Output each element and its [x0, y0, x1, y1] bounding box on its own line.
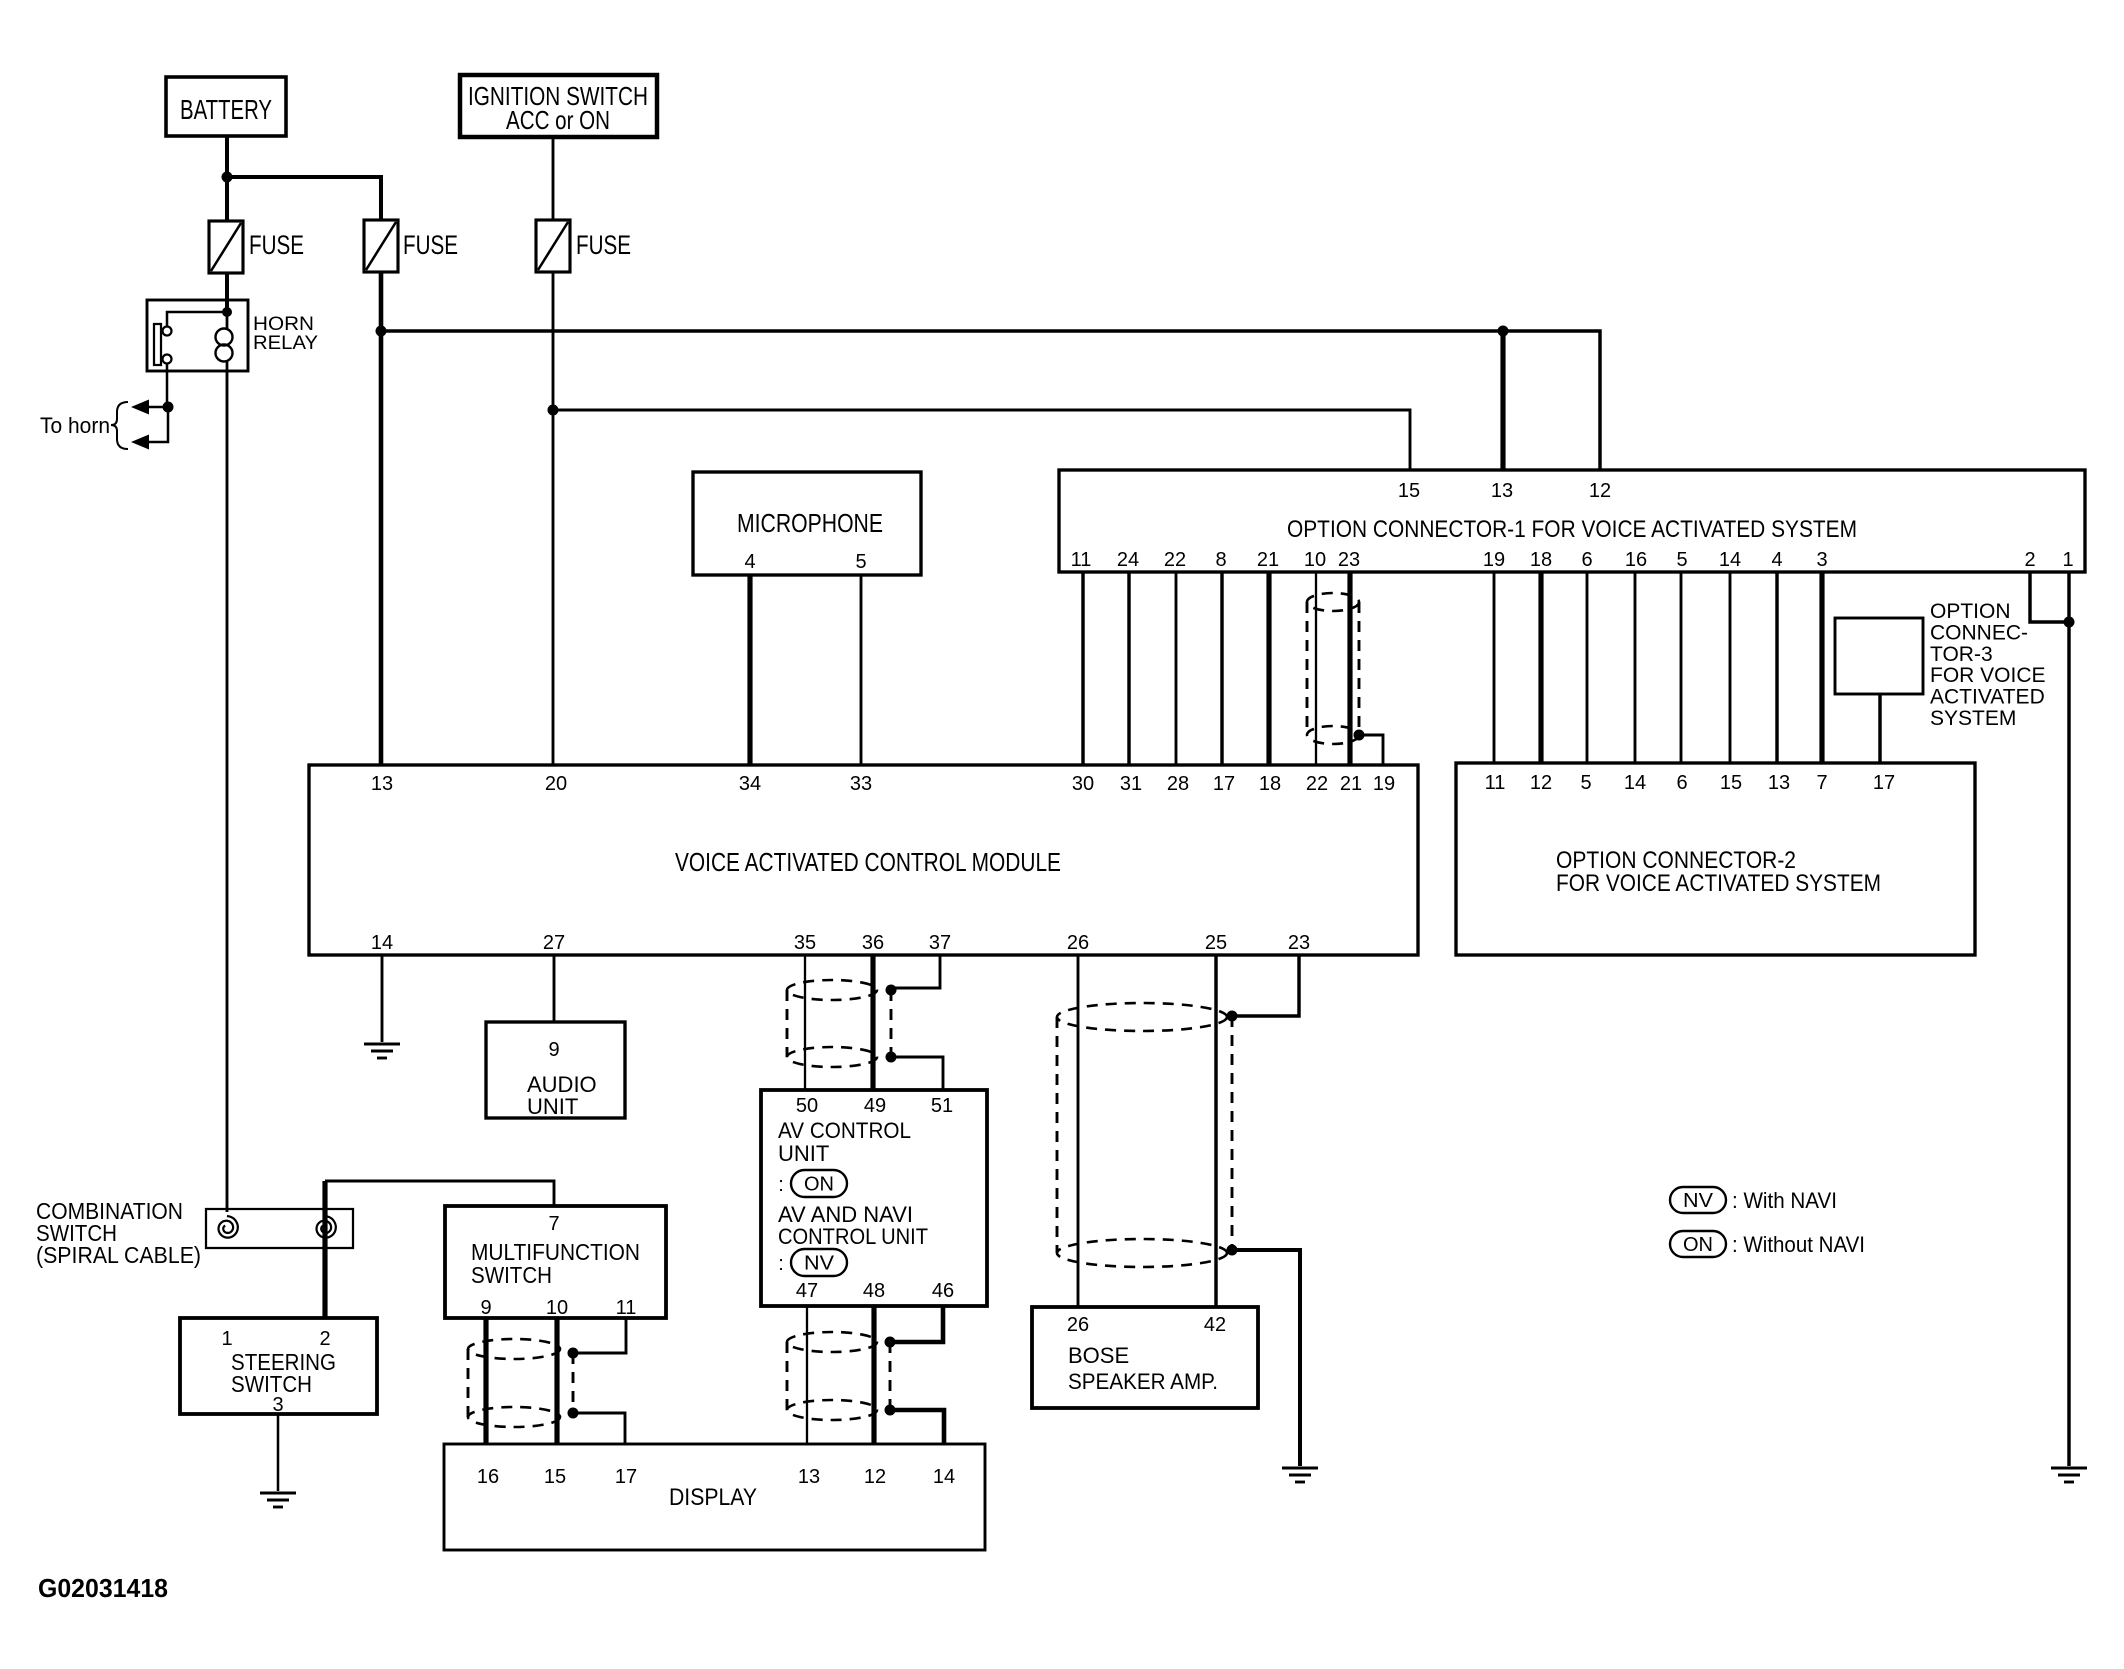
svg-text:15: 15 [1398, 480, 1420, 502]
multifunction switch box [445, 1206, 666, 1318]
svg-text:13: 13 [1768, 772, 1790, 794]
wire MF-9 to display-16 [483, 1318, 488, 1444]
wire VACM-14 to ground [381, 955, 384, 1042]
svg-text:MICROPHONE: MICROPHONE [737, 508, 883, 538]
svg-text:DISPLAY: DISPLAY [669, 1484, 757, 1511]
svg-text:2: 2 [2024, 549, 2035, 571]
svg-text:42: 42 [1204, 1314, 1226, 1336]
svg-text:26: 26 [1067, 1314, 1089, 1336]
wire MF-11 jog [573, 1318, 626, 1353]
wire L1 drop to OC1 pin 13 [1500, 331, 1505, 470]
wire VACM-26 to bose-26 [1077, 955, 1080, 1307]
svg-text:4: 4 [1771, 549, 1782, 571]
svg-text:ON: ON [804, 1174, 834, 1196]
svg-text::: : [778, 1253, 784, 1275]
svg-text:6: 6 [1581, 549, 1592, 571]
svg-text:26: 26 [1067, 932, 1089, 954]
shield S3 [787, 1332, 877, 1352]
relay internal wire to contact [167, 312, 227, 326]
svg-text:OPTION: OPTION [1930, 600, 2011, 623]
wire AV-47 to display-13 [806, 1306, 808, 1444]
ground VACM-14 [364, 1043, 400, 1046]
svg-text:FUSE: FUSE [249, 230, 304, 260]
ground right rail [2051, 1467, 2087, 1470]
svg-text:13: 13 [1491, 480, 1513, 502]
svg-text:24: 24 [1117, 549, 1139, 571]
svg-text:ON: ON [1683, 1234, 1713, 1256]
ignition switch SW1 [460, 75, 657, 137]
svg-text:12: 12 [1589, 480, 1611, 502]
wire rail fuse3 to VACM pin 20 [552, 272, 555, 765]
svg-text:11: 11 [1071, 549, 1092, 571]
wire AV-48 to display-12 [871, 1306, 876, 1444]
svg-text:16: 16 [477, 1466, 499, 1488]
svg-text:28: 28 [1167, 773, 1189, 795]
svg-text:15: 15 [1720, 772, 1742, 794]
svg-text:23: 23 [1338, 549, 1360, 571]
svg-text:16: 16 [1625, 549, 1647, 571]
svg-text:25: 25 [1205, 932, 1227, 954]
combination switch spiral cable box [206, 1209, 353, 1248]
wire ignition to fuse3 [552, 137, 555, 220]
svg-text:9: 9 [548, 1039, 559, 1061]
svg-text:5: 5 [1676, 549, 1687, 571]
svg-text:36: 36 [862, 932, 884, 954]
legend ON without navi [1670, 1231, 1726, 1257]
wire OC1-16 to OC2-14 [1634, 572, 1637, 763]
svg-text:30: 30 [1072, 773, 1094, 795]
svg-text:HORN: HORN [253, 314, 314, 335]
svg-text:14: 14 [371, 932, 393, 954]
node S3 drain top [885, 1337, 896, 1348]
svg-text:21: 21 [1340, 773, 1362, 795]
svg-text:11: 11 [1485, 772, 1506, 794]
battery B1 [166, 77, 286, 136]
wire relay switch to horn node [166, 363, 169, 407]
svg-text:21: 21 [1257, 549, 1279, 571]
svg-text:CONTROL UNIT: CONTROL UNIT [778, 1224, 928, 1249]
svg-text:13: 13 [371, 773, 393, 795]
node S3 drain bottom [885, 1405, 896, 1416]
svg-text:50: 50 [796, 1095, 818, 1117]
wire to horn upper [145, 406, 168, 409]
node S2 drain top [886, 985, 897, 996]
wire OC1-18 to OC2-12 [1538, 572, 1543, 763]
svg-text:3: 3 [272, 1394, 283, 1416]
wire junction to fuse1 [225, 177, 229, 221]
bose speaker amp box [1032, 1307, 1258, 1408]
wire OC1-1 rail to ground [2067, 572, 2070, 1466]
svg-text:ACTIVATED: ACTIVATED [1930, 686, 2045, 709]
wire VACM-37 jog [891, 955, 940, 988]
svg-text:51: 51 [931, 1095, 953, 1117]
svg-text:35: 35 [794, 932, 816, 954]
node fuse2 rail branch [376, 326, 387, 337]
wire battery to junction [225, 136, 229, 177]
svg-text:3: 3 [1816, 549, 1827, 571]
svg-text:17: 17 [615, 1466, 637, 1488]
svg-text:NV: NV [1683, 1190, 1714, 1212]
wire OC1-14 to OC2-15 [1729, 572, 1732, 763]
svg-text:6: 6 [1676, 772, 1687, 794]
svg-text:17: 17 [1213, 773, 1235, 795]
svg-text:(SPIRAL CABLE): (SPIRAL CABLE) [36, 1242, 201, 1268]
svg-text:7: 7 [1816, 772, 1827, 794]
ground bose shield [1282, 1467, 1318, 1470]
node S5 drain top [1227, 1011, 1238, 1022]
wire OC1-4 to OC2-13 [1775, 572, 1778, 763]
svg-text:FUSE: FUSE [403, 230, 458, 260]
svg-text:46: 46 [932, 1280, 954, 1302]
svg-text:19: 19 [1483, 549, 1505, 571]
svg-text:14: 14 [1624, 772, 1646, 794]
wire S5 drain to ground [1232, 1250, 1300, 1466]
svg-text:12: 12 [864, 1466, 886, 1488]
svg-text:: Without NAVI: : Without NAVI [1732, 1232, 1865, 1257]
wire S4 drain to display-17 [573, 1413, 625, 1444]
AV control unit box [761, 1090, 987, 1306]
wire S2 drain to AV-51 [891, 1057, 943, 1090]
wire OC1-2 jog [2030, 572, 2069, 622]
svg-text:ACC or ON: ACC or ON [506, 105, 610, 135]
svg-text:34: 34 [739, 773, 761, 795]
svg-text:AV CONTROL: AV CONTROL [778, 1118, 911, 1143]
node S4 drain top [568, 1348, 579, 1359]
relay contact bar [154, 324, 161, 365]
wire VACM-35 to AV-50 [804, 955, 806, 1090]
wire bus L2 to OC1 pin 15 [553, 410, 1410, 470]
wire OC3 to OC2-17 [1878, 694, 1881, 763]
shield S2 [787, 980, 877, 1000]
wire rail fuse2 to VACM pin 13 [379, 272, 384, 765]
svg-text:5: 5 [1580, 772, 1591, 794]
svg-text:33: 33 [850, 773, 872, 795]
wire junction to fuse2 rail [227, 177, 381, 220]
node L1 branch pin13 [1498, 326, 1509, 337]
svg-text:TOR-3: TOR-3 [1930, 643, 1993, 666]
option connector-3 box [1835, 618, 1923, 694]
node pin1 junction [2064, 617, 2075, 628]
spiral cable coil 1 [219, 1216, 238, 1238]
wire OC1-3 to OC2-7 [1819, 572, 1824, 763]
svg-text:20: 20 [545, 773, 567, 795]
svg-text:37: 37 [929, 932, 951, 954]
voice activated control module box [309, 765, 1418, 955]
wire mic pin5 to VACM 33 [860, 575, 863, 765]
svg-text:7: 7 [548, 1213, 559, 1235]
microphone M1 [693, 472, 921, 575]
arrow to horn upper [131, 400, 149, 415]
svg-text:CONNEC-: CONNEC- [1930, 621, 2028, 644]
wire OC1-22 to VACM-28 [1175, 572, 1178, 765]
node relay coil top [222, 307, 232, 317]
wire fuse1 to relay [225, 272, 229, 312]
svg-text:14: 14 [933, 1466, 955, 1488]
wire steering-3 to ground [277, 1414, 280, 1491]
wire bus L1 to option connector-1 [381, 331, 1600, 470]
svg-text:13: 13 [798, 1466, 820, 1488]
svg-text:18: 18 [1259, 773, 1281, 795]
svg-text:22: 22 [1164, 549, 1186, 571]
S4 drain line [572, 1353, 575, 1413]
node battery junction [222, 172, 233, 183]
wire AV-46 jog [890, 1306, 943, 1342]
wire OC1-24 to VACM-31 [1127, 572, 1130, 765]
wire OC1-10 to VACM-22 [1315, 572, 1317, 765]
wire S3 drain to display-14 [890, 1410, 944, 1444]
svg-text:11: 11 [616, 1297, 637, 1319]
svg-text:NV: NV [804, 1253, 835, 1275]
svg-text:10: 10 [1304, 549, 1326, 571]
node S4 drain bottom [568, 1408, 579, 1419]
wire rail battery feed to combination switch [226, 371, 229, 1212]
relay contact circles [163, 327, 172, 336]
S2 drain line [890, 990, 893, 1057]
svg-text:19: 19 [1373, 773, 1395, 795]
relay coil [216, 329, 233, 346]
spiral cable coil 2 [317, 1216, 336, 1238]
svg-text:5: 5 [855, 551, 866, 573]
wire OC1-6 to OC2-5 [1586, 572, 1589, 763]
svg-text:UNIT: UNIT [778, 1141, 829, 1166]
svg-text:SPEAKER AMP.: SPEAKER AMP. [1068, 1369, 1218, 1394]
svg-text:G02031418: G02031418 [38, 1573, 168, 1603]
fuse F3 [536, 220, 570, 272]
svg-text:FOR VOICE: FOR VOICE [1930, 664, 2046, 687]
svg-text:BATTERY: BATTERY [180, 94, 272, 125]
svg-text:14: 14 [1719, 549, 1741, 571]
legend NV with navi [1670, 1187, 1726, 1213]
wire steering-2 spiral [322, 1181, 327, 1318]
svg-text:RELAY: RELAY [253, 333, 318, 354]
horn relay K1 box [147, 300, 248, 371]
svg-text:31: 31 [1120, 773, 1142, 795]
audio unit box [486, 1022, 625, 1118]
wire OC1-23 to VACM-21 [1347, 572, 1352, 765]
svg-text:VOICE ACTIVATED CONTROL MODULE: VOICE ACTIVATED CONTROL MODULE [675, 847, 1061, 877]
svg-text:FOR VOICE ACTIVATED SYSTEM: FOR VOICE ACTIVATED SYSTEM [1556, 870, 1881, 897]
S5 drain line [1231, 1016, 1234, 1250]
node S2 drain bottom [886, 1052, 897, 1063]
option connector-1 box [1059, 470, 2085, 572]
svg-text:18: 18 [1530, 549, 1552, 571]
display box [444, 1444, 985, 1550]
wire mic pin4 to VACM 34 [747, 575, 752, 765]
svg-text:23: 23 [1288, 932, 1310, 954]
shield S1 [1307, 593, 1359, 611]
node to-horn junction [163, 402, 174, 413]
svg-text:2: 2 [319, 1328, 330, 1350]
wire VACM-27 to audio unit [553, 955, 556, 1022]
svg-text:17: 17 [1873, 772, 1895, 794]
svg-text:FUSE: FUSE [576, 230, 631, 260]
svg-text:12: 12 [1530, 772, 1552, 794]
svg-text:: With NAVI: : With NAVI [1732, 1188, 1837, 1213]
shield S4 [468, 1339, 560, 1359]
steering switch box [180, 1318, 377, 1414]
wire OC1-19 to OC2-11 [1493, 572, 1496, 763]
node S5 drain bottom [1227, 1245, 1238, 1256]
svg-text:48: 48 [863, 1280, 885, 1302]
node fuse3 rail branch [548, 405, 559, 416]
svg-text:1: 1 [221, 1328, 232, 1350]
svg-text:4: 4 [744, 551, 755, 573]
S3 drain line [889, 1342, 892, 1410]
node S1 drain [1354, 730, 1365, 741]
svg-text:BOSE: BOSE [1068, 1343, 1129, 1368]
wire VACM-23 jog [1232, 955, 1299, 1016]
to horn brace [111, 402, 128, 449]
wire OC1-5 to OC2-6 [1680, 572, 1683, 763]
wire VACM-36 to AV-49 [870, 955, 875, 1090]
svg-text:22: 22 [1306, 773, 1328, 795]
wire OC1-8 to VACM-17 [1220, 572, 1223, 765]
wire to horn lower [145, 407, 168, 442]
svg-text:8: 8 [1215, 549, 1226, 571]
fuse F1 [209, 221, 243, 273]
svg-text:15: 15 [544, 1466, 566, 1488]
wire OC1-11 to VACM-30 [1081, 572, 1084, 765]
svg-text:SYSTEM: SYSTEM [1930, 707, 2016, 730]
shield S5 [1057, 1003, 1227, 1031]
fuse F2 [364, 220, 398, 272]
wire MF-10 to display-15 [554, 1318, 559, 1444]
wire OC1-21 to VACM-18 [1266, 572, 1271, 765]
svg-text:To horn: To horn [40, 413, 110, 438]
option connector-2 box [1456, 763, 1975, 955]
wire VACM-25 to bose-42 [1214, 955, 1217, 1307]
wire S1 drain to VACM-19 [1359, 735, 1383, 765]
svg-text:1: 1 [2062, 549, 2073, 571]
ground steering [260, 1492, 296, 1495]
arrow to horn lower [131, 435, 149, 450]
svg-text::: : [778, 1174, 784, 1196]
svg-text:9: 9 [480, 1297, 491, 1319]
svg-text:UNIT: UNIT [527, 1094, 578, 1119]
wire steering-2 to multifunction-7 [325, 1181, 554, 1206]
svg-text:OPTION CONNECTOR-1 FOR VOICE A: OPTION CONNECTOR-1 FOR VOICE ACTIVATED S… [1287, 516, 1857, 543]
svg-text:SWITCH: SWITCH [471, 1262, 552, 1288]
svg-text:49: 49 [864, 1095, 886, 1117]
svg-text:47: 47 [796, 1280, 818, 1302]
svg-text:27: 27 [543, 932, 565, 954]
svg-text:10: 10 [546, 1297, 568, 1319]
